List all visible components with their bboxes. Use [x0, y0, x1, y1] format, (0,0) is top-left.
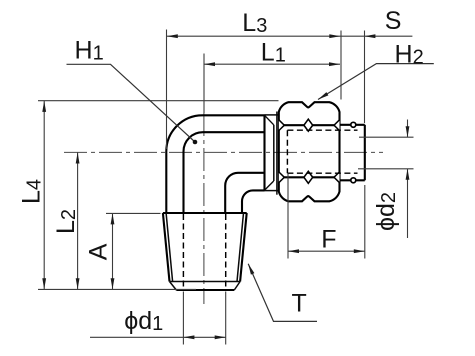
male thread left outer taper line	[163, 213, 170, 282]
sleeve stub bottom line	[340, 179, 365, 181]
extension line phi-d1 right	[225, 292, 227, 345]
dimension line F	[288, 250, 365, 252]
nut lower hex face line	[279, 176, 340, 178]
extension line L1 left	[203, 54, 205, 114]
leader H1 with dot	[67, 64, 196, 142]
nut lower face diamond	[304, 171, 313, 183]
male thread hidden core line right (dashed)	[225, 214, 227, 290]
male thread right inner thread line	[237, 213, 244, 282]
extension line bottom (L4/L2/A)	[38, 288, 196, 290]
hidden tube top line (dashed)	[287, 129, 357, 131]
dimension line phi-d2 lower segment	[407, 169, 409, 238]
sleeve stub top line	[340, 124, 365, 126]
stub top bead circle	[351, 122, 356, 127]
svg-text:S: S	[385, 7, 402, 35]
dimension line L2	[77, 153, 79, 290]
collar second vertical line	[276, 112, 278, 195]
dimension line phi-d1	[90, 336, 226, 338]
nut lower-left half diamond	[279, 172, 285, 183]
male thread bottom-left chamfer	[170, 282, 177, 291]
collar inner vertical line	[273, 125, 275, 181]
hidden tube end line (dashed)	[286, 130, 288, 173]
nut upper hex face line	[279, 124, 340, 126]
vertical centerline (thread axis)	[203, 113, 205, 304]
svg-text:F: F	[321, 226, 336, 254]
nut upper-left half diamond	[279, 120, 285, 131]
elbow inner corner upper contour	[225, 173, 264, 213]
extension line S right	[364, 31, 366, 124]
nut lower-right half diamond	[334, 172, 340, 183]
collar left edge	[263, 115, 265, 190]
extension line phi-d2 bottom	[358, 168, 414, 170]
dimension line L4	[43, 101, 45, 289]
elbow body inner band contour	[184, 132, 265, 213]
elbow body outer contour (left vertical + outer bend arc + top horizontal)	[166, 115, 264, 213]
dimension line L1	[204, 63, 340, 65]
extension line phi-d1 left	[182, 292, 184, 345]
nut upper face diamond	[304, 119, 313, 131]
dimension line phi-d2 upper segment	[407, 120, 409, 138]
extension line A top	[106, 212, 161, 214]
extension line L4 top	[38, 100, 279, 102]
extension line F left	[287, 174, 289, 259]
male thread hidden core line left (dashed)	[182, 214, 184, 290]
nut outline with chamfered corners and wrench notches	[279, 102, 340, 201]
dimension line A	[112, 213, 114, 289]
collar bottom edge	[265, 190, 279, 192]
male thread top shoulder edge	[163, 212, 247, 214]
sleeve stub end face	[364, 125, 366, 181]
collar bottom chamfer diagonal	[265, 181, 274, 190]
elbow inner corner lower contour	[242, 190, 265, 213]
dimension line L3 and S (top chain)	[167, 35, 413, 37]
collar top edge	[265, 114, 279, 116]
male thread bottom end face	[176, 289, 234, 291]
male thread bottom-right chamfer	[234, 282, 240, 291]
extension line left of L3	[166, 30, 168, 150]
extension line phi-d2 top	[359, 136, 414, 138]
hidden tube bottom line (dashed)	[287, 172, 357, 174]
male thread right outer taper line	[240, 213, 247, 282]
male thread left inner thread line	[166, 213, 173, 282]
extension line L3/S shared	[340, 31, 342, 100]
collar top chamfer diagonal	[265, 116, 274, 125]
leader H2 with arrow	[318, 64, 434, 100]
leader T with arrow	[248, 264, 317, 322]
stub bottom bead circle	[351, 178, 356, 183]
extension line F right	[364, 185, 366, 259]
horizontal centerline (nut axis)	[64, 151, 383, 153]
svg-text:A: A	[85, 243, 113, 260]
nut upper-right half diamond	[334, 120, 340, 131]
male thread chamfer shoulder line	[170, 281, 241, 283]
svg-text:T: T	[292, 290, 307, 318]
